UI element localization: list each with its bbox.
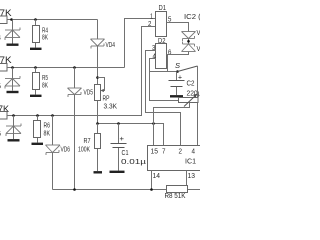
ground R4 [30, 48, 42, 50]
node botrail-pin13 [185, 188, 188, 191]
wire rail2 riser to D1 pin1 [125, 19, 157, 68]
wire rail1 [7, 19, 98, 21]
resistor R5 [33, 73, 40, 90]
node rail3-VD6 [51, 114, 54, 117]
svg-text:IC2 (0: IC2 (0 [184, 12, 200, 21]
svg-text:4: 4 [0, 33, 1, 42]
node rail1-R4 [34, 18, 37, 21]
svg-text:D1: D1 [159, 3, 167, 12]
svg-text:8K: 8K [42, 81, 48, 90]
node switch-C2 [176, 70, 179, 73]
svg-text:7: 7 [162, 147, 166, 156]
svg-text:2: 2 [179, 147, 183, 156]
resistor R3 (left, cropped) [0, 112, 7, 120]
svg-text:15: 15 [151, 147, 159, 156]
capacitor C1 [111, 144, 127, 148]
svg-text:6: 6 [168, 48, 171, 57]
ground R5 [30, 95, 42, 97]
wire VD5 column [74, 68, 76, 190]
potentiometer RP [95, 85, 101, 101]
svg-text:8K: 8K [42, 33, 48, 42]
arrowhead RP wiper [100, 89, 104, 92]
ground R6 [32, 143, 44, 145]
wire zener col row2 [12, 68, 14, 91]
wire clamp middle [188, 39, 190, 45]
svg-text:4: 4 [192, 147, 196, 156]
svg-text:C1: C1 [122, 148, 129, 157]
svg-text:VD6: VD6 [61, 145, 71, 154]
node rail1-VS4 [10, 18, 13, 21]
resistor R2 (left, cropped) [0, 64, 7, 72]
node botrail-pin14 [150, 188, 153, 191]
connector D1 [156, 12, 167, 37]
svg-text:5: 5 [0, 82, 1, 91]
svg-text:V: V [197, 28, 201, 37]
svg-text:+: + [178, 73, 183, 82]
wire bottom rail [53, 189, 203, 191]
svg-text:+: + [120, 134, 125, 143]
node lowrail-RP [96, 122, 99, 125]
switch S blade [178, 66, 198, 72]
node clamp middle [187, 40, 190, 43]
diode VD4 [91, 39, 105, 49]
wire D1 pin5 to clamp [167, 23, 189, 32]
svg-text:2: 2 [148, 19, 151, 28]
arrow through slashed box [184, 95, 196, 107]
svg-text:VD4: VD4 [106, 40, 116, 49]
node rail3-VS6 [12, 114, 15, 117]
resistor R8 [167, 186, 188, 193]
ground row3 zener [8, 139, 20, 141]
svg-text:6: 6 [0, 129, 1, 138]
wire R4 col [35, 20, 37, 48]
ground C1 [110, 171, 125, 173]
wire D2 pin6 to clamp [167, 52, 189, 55]
node botrail-VD5 [73, 188, 76, 191]
svg-text:IC1: IC1 [185, 157, 196, 166]
node rail2-VS5 [11, 66, 14, 69]
svg-text:D2: D2 [158, 36, 166, 45]
wire pin13 stub [186, 171, 188, 190]
diode VD6 [46, 145, 61, 155]
wire pin6 drop to switch row [167, 55, 169, 72]
wire VD4 column [97, 20, 99, 124]
wire zener col row3 [13, 116, 15, 140]
resistor R1 (left, cropped) [0, 16, 7, 24]
variable element (slashed box) [179, 98, 199, 103]
zener VS1 (upper clamp) [182, 32, 196, 42]
svg-text:8K: 8K [44, 129, 51, 138]
svg-text:13: 13 [188, 171, 196, 180]
wire D2 pin3 path to IC1 pin2 [146, 51, 181, 146]
svg-text:14: 14 [153, 171, 161, 180]
wire R5 col [35, 68, 37, 95]
ground C2 [170, 95, 183, 97]
node lowrail-C1 [117, 122, 120, 125]
ground R7 [94, 171, 103, 173]
wire rail3 [7, 27, 156, 116]
wire pin14 stub [151, 171, 153, 190]
wire VD6 column [52, 116, 54, 190]
zener VS4 row1 [5, 28, 20, 41]
ground row2 zener [7, 91, 19, 93]
wire zener col row1 [12, 20, 14, 44]
wire lower rail [98, 124, 164, 146]
wire R7 column [97, 124, 99, 172]
wire C1 column [118, 124, 120, 171]
capacitor C2 [169, 81, 185, 87]
svg-text:R8 51K: R8 51K [165, 191, 186, 200]
svg-text:S: S [175, 61, 180, 70]
node rail3-R6 [36, 114, 39, 117]
node rail2-VD5 [73, 66, 76, 69]
node RP tap [96, 76, 99, 79]
wire switch right riser [197, 66, 199, 146]
connector D2 [156, 44, 167, 69]
wire RP wiper loop [98, 78, 105, 91]
zener VS2 (lower clamp) [182, 42, 196, 52]
wire rail2 [7, 67, 125, 69]
zener VS6 row3 [6, 124, 21, 137]
wire switch row [150, 71, 178, 73]
resistor R7 [95, 134, 101, 149]
diode VD5 [68, 88, 82, 97]
node lowrail-pin15 [152, 122, 155, 125]
ground row1 zener [7, 44, 19, 46]
svg-text:0.01µ: 0.01µ [121, 157, 147, 166]
chip IC1 [148, 146, 205, 171]
resistor R6 [34, 121, 41, 138]
svg-text:V: V [197, 44, 201, 53]
resistor R4 [33, 26, 40, 43]
svg-text:3.3K: 3.3K [104, 102, 118, 111]
zener VS5 row2 [5, 76, 20, 89]
svg-text:VD5: VD5 [84, 88, 94, 97]
svg-text:C2: C2 [187, 79, 195, 88]
wire C2 stem [176, 72, 178, 96]
svg-text:4: 4 [153, 52, 156, 61]
arrowhead slashed box [193, 94, 197, 98]
svg-text:100K: 100K [78, 145, 90, 154]
wire pin15 riser to variable element [154, 103, 190, 146]
node rail2-R5 [34, 66, 37, 69]
wire D2 pin4 path to variable element [150, 59, 179, 101]
wire R6 col [37, 116, 39, 143]
